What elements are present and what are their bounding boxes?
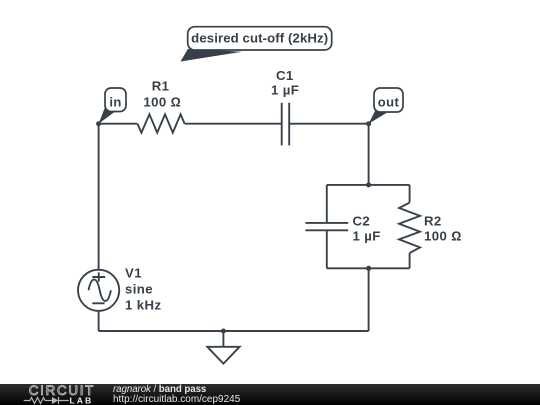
node in junction dot <box>96 121 101 126</box>
wire bottom horizontal <box>99 330 369 332</box>
V1 sine wave <box>89 280 111 301</box>
svg-text:in: in <box>109 95 121 110</box>
footer bar <box>0 384 540 405</box>
junction dot top of parallel RC <box>366 182 371 187</box>
junction dot bottom of parallel RC <box>366 266 371 271</box>
node out junction dot <box>366 121 371 126</box>
capacitor C1 <box>282 103 290 146</box>
footer logo diode <box>52 397 58 404</box>
V1 minus sign <box>92 302 104 304</box>
svg-text:http://circuitlab.com/cep9245: http://circuitlab.com/cep9245 <box>113 394 241 405</box>
footer logo squiggle resistor <box>24 398 52 404</box>
wire R2 branch top <box>409 185 411 203</box>
svg-text:100 Ω: 100 Ω <box>143 94 181 109</box>
in flag box <box>105 88 126 112</box>
wire bottom node down <box>368 268 370 331</box>
voltage source V1 circle <box>78 270 119 311</box>
svg-text:100 Ω: 100 Ω <box>424 229 462 244</box>
wire R1 to C1 <box>185 123 282 125</box>
svg-text:1 µF: 1 µF <box>271 83 299 98</box>
svg-text:C1: C1 <box>276 68 294 83</box>
svg-text:1 µF: 1 µF <box>353 228 381 243</box>
wire top rail of parallel RC <box>327 184 410 186</box>
resistor R2 <box>399 203 420 253</box>
annotation bubble box <box>188 27 332 50</box>
svg-text:R2: R2 <box>424 213 442 228</box>
svg-text:R1: R1 <box>152 79 170 94</box>
wire C2 branch bottom <box>326 230 328 268</box>
wire V1 bottom to rail <box>98 311 100 331</box>
wire R2 branch bottom <box>409 253 411 268</box>
wire C2 branch top <box>326 185 328 223</box>
junction dot ground <box>221 329 226 334</box>
svg-text:V1: V1 <box>125 265 142 280</box>
svg-text:LAB: LAB <box>70 395 94 405</box>
wire C1 to out node <box>289 123 368 125</box>
svg-text:desired cut-off (2kHz): desired cut-off (2kHz) <box>191 31 328 46</box>
out flag tail <box>369 110 388 124</box>
wire bottom rail of parallel RC <box>327 267 410 269</box>
capacitor C2 <box>305 223 348 230</box>
in flag tail <box>99 109 116 124</box>
resistor R1 <box>138 114 185 132</box>
V1 plus sign <box>92 272 105 281</box>
wire in node to R1 <box>99 123 138 125</box>
svg-text:out: out <box>378 95 400 110</box>
out flag box <box>374 88 403 112</box>
svg-text:C2: C2 <box>353 213 371 228</box>
annotation bubble tail <box>181 49 243 62</box>
ground triangle <box>207 347 239 364</box>
wire out node down <box>368 124 370 185</box>
ground stub <box>222 331 224 347</box>
svg-text:sine: sine <box>125 281 153 296</box>
svg-text:1 kHz: 1 kHz <box>125 298 161 313</box>
wire left vertical to V1 <box>98 124 100 270</box>
